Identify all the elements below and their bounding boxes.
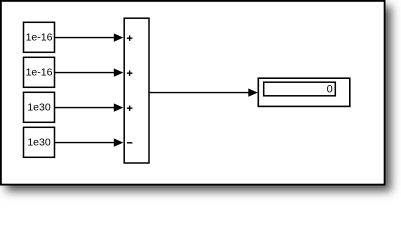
canvas frame shadow <box>0 0 385 185</box>
svg-text:1e30: 1e30 <box>27 137 51 149</box>
svg-text:0: 0 <box>327 83 333 95</box>
display block D1 <box>258 78 350 106</box>
canvas frame <box>1 1 385 185</box>
constant block C4 value 1e30 <box>24 127 55 157</box>
svg-text:1e-16: 1e-16 <box>26 32 53 44</box>
svg-text:1e-16: 1e-16 <box>26 67 53 79</box>
wire C1 to sum input 1 <box>55 33 124 41</box>
wire C2 to sum input 2 <box>55 68 124 76</box>
wire C4 to sum input 4 <box>55 138 124 146</box>
sum block U1 <box>124 18 149 163</box>
sum sign + port 2 <box>127 71 132 76</box>
wire sum output to display <box>149 88 258 96</box>
constant block C1 value 1e-16 <box>24 22 55 52</box>
svg-text:1e30: 1e30 <box>27 102 51 114</box>
sum sign + port 1 <box>127 36 132 41</box>
sum sign - port 4 <box>127 142 132 144</box>
sum sign + port 3 <box>127 106 132 111</box>
constant block C2 value 1e-16 <box>24 57 55 87</box>
constant block C3 value 1e30 <box>24 92 55 122</box>
wire C3 to sum input 3 <box>55 103 124 111</box>
